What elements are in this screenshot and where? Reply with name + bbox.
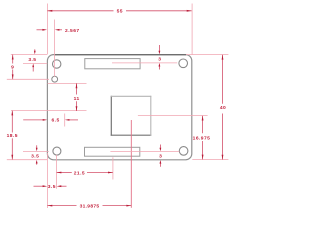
svg-text:55: 55: [117, 8, 123, 14]
dim 3.5 bottom: [34, 184, 67, 190]
extension line board-left bottom: [46, 153, 48, 208]
svg-text:21.5: 21.5: [74, 171, 85, 177]
extension line board-right top: [191, 4, 193, 55]
dim 3 bottom: [159, 145, 162, 167]
small hole: [52, 76, 58, 82]
dim 11: [74, 83, 80, 111]
extension line board bottom left: [7, 159, 47, 161]
hole TL: [53, 60, 61, 68]
dim 3.5 bottom-left: [31, 145, 39, 164]
svg-text:3.5: 3.5: [28, 57, 36, 63]
hole BL: [53, 147, 61, 155]
top connector: [85, 59, 140, 69]
dim 21.5: [57, 171, 113, 177]
hole BR: [179, 147, 188, 156]
svg-text:11: 11: [74, 96, 80, 102]
extension line board top right: [186, 54, 228, 56]
extension line TL hole center: [23, 62, 47, 64]
svg-text:16.975: 16.975: [193, 136, 211, 142]
board top edge (darker): [54, 54, 186, 56]
extension line BL hole center left: [23, 150, 49, 152]
extension line dim11 bottom: [11, 110, 87, 112]
dim 55: [47, 8, 191, 14]
svg-text:3.5: 3.5: [31, 154, 39, 160]
dim 16.975: [193, 116, 211, 160]
extension line board bottom right: [192, 159, 228, 161]
extension line dim6.5 right: [64, 114, 66, 127]
extension line left at board top: [11, 53, 47, 55]
dim 3.5 top-left: [28, 49, 36, 71]
dim 18.5: [7, 111, 18, 160]
svg-text:31.9875: 31.9875: [80, 204, 100, 210]
svg-text:2.567: 2.567: [65, 28, 80, 34]
dim 31.9875: [47, 204, 131, 210]
extension line small hole center: [7, 78, 49, 80]
hole TR: [179, 59, 188, 68]
board outline: [47, 55, 191, 160]
dim 6.5: [23, 118, 78, 124]
svg-text:9: 9: [11, 64, 14, 70]
extension line dim11 top: [48, 82, 87, 84]
centerline chip vertical: [130, 120, 132, 208]
svg-text:3.5: 3.5: [48, 184, 56, 190]
chip: [111, 96, 152, 136]
svg-text:18.5: 18.5: [7, 133, 18, 139]
extension line bottom holes center: [110, 150, 179, 152]
dim 9: [11, 55, 14, 80]
svg-text:3: 3: [159, 153, 162, 159]
extension line BL-hole-x bottom: [56, 155, 58, 189]
bottom connector: [85, 147, 140, 156]
extension line top holes center right: [112, 62, 177, 64]
dim 2.567: [37, 28, 80, 34]
extension line small-hole-x top: [53, 20, 55, 77]
svg-text:6.5: 6.5: [52, 118, 60, 124]
extension line board-left top: [46, 4, 48, 55]
centerline chip horizontal: [138, 115, 208, 117]
dim 3 top: [158, 45, 161, 70]
svg-text:3: 3: [158, 57, 161, 63]
dim 40: [220, 55, 226, 160]
svg-text:40: 40: [220, 105, 226, 111]
extension line dim21.5 right: [112, 157, 114, 179]
